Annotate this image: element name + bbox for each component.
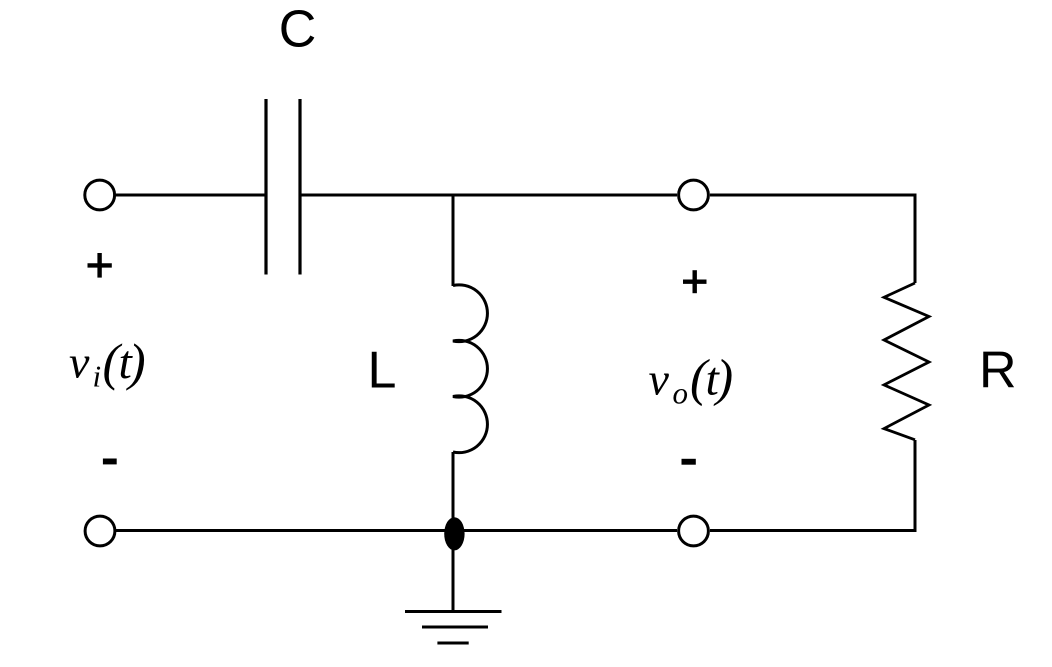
node Vi+ terminal circle	[85, 180, 115, 210]
capacitor C left plate	[264, 99, 267, 275]
svg-text:L: L	[368, 342, 397, 400]
ground bottom bar	[437, 642, 468, 645]
ground middle bar	[422, 626, 488, 629]
wire top: input terminal to capacitor left plate	[116, 194, 266, 197]
svg-text:i: i	[93, 359, 102, 394]
svg-text:R: R	[979, 341, 1017, 399]
wire top: output terminal to right corner	[710, 194, 917, 197]
wire junction to ground	[452, 534, 455, 612]
junction dot	[444, 517, 464, 550]
wire bottom: output terminal to right corner	[710, 529, 917, 532]
svg-text:o: o	[673, 376, 689, 411]
wire right vertical above resistor	[914, 194, 917, 284]
plus sign input	[88, 253, 112, 278]
wire bottom: input terminal to output terminal through junction	[116, 529, 677, 532]
wire top: capacitor right plate to output terminal	[300, 194, 677, 197]
svg-text:v: v	[649, 353, 670, 404]
node Vo+ terminal circle	[679, 180, 709, 210]
svg-text:v: v	[69, 337, 90, 388]
minus sign output	[682, 459, 696, 465]
label vo(t)	[649, 350, 734, 411]
svg-text:): )	[126, 335, 146, 392]
node Vi- terminal circle	[85, 516, 115, 546]
wire right vertical below resistor	[914, 440, 917, 532]
capacitor C right plate	[298, 99, 301, 275]
svg-text:C: C	[279, 1, 317, 59]
ground top bar	[405, 610, 502, 613]
inductor L coils	[453, 285, 487, 453]
label vi(t)	[69, 335, 146, 394]
minus sign input	[103, 459, 117, 465]
resistor R zigzag	[884, 283, 929, 440]
wire from top rail down to inductor	[452, 195, 455, 286]
plus sign output	[683, 270, 707, 293]
svg-text:): )	[713, 350, 733, 407]
node Vo- terminal circle	[679, 516, 709, 546]
wire from inductor to junction	[452, 452, 455, 530]
